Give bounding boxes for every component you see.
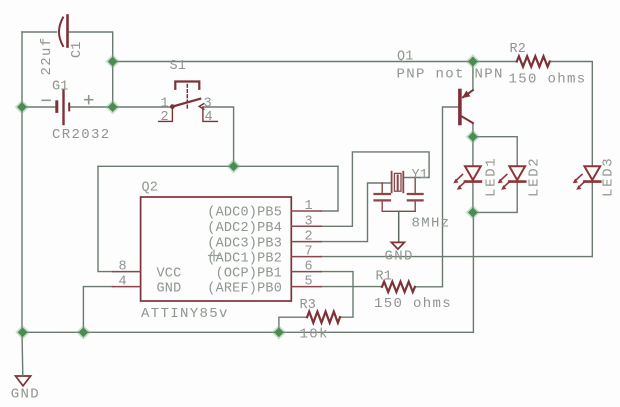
- svg-text:(ADC1)PB2: (ADC1)PB2: [207, 251, 282, 266]
- IC Q2 left pins 8 4: [113, 272, 141, 287]
- svg-text:(ADC0)PB5: (ADC0)PB5: [207, 206, 282, 221]
- junction node halos: [15, 54, 481, 340]
- IC Q2 ATTINY85v box: [141, 197, 292, 301]
- svg-text:22uf: 22uf: [39, 36, 55, 75]
- wire bottom ground rail: [22, 212, 473, 332]
- svg-text:GND: GND: [385, 249, 414, 265]
- svg-text:GND: GND: [11, 387, 40, 403]
- IC Q2 origin cross: [209, 250, 220, 261]
- wire LED3 cathode down to pin 7 net: [591, 182, 593, 257]
- switch S1: [159, 82, 218, 122]
- wire R3 left lead to ground rail: [279, 317, 307, 332]
- svg-text:Q2: Q2: [142, 181, 159, 196]
- battery minus sign: [42, 99, 50, 101]
- svg-text:6: 6: [304, 260, 312, 275]
- svg-text:8MHz: 8MHz: [412, 216, 451, 232]
- svg-text:150 ohms: 150 ohms: [374, 296, 452, 312]
- wire Q1 emitter to top rail: [472, 62, 474, 91]
- svg-text:2: 2: [160, 110, 168, 125]
- svg-text:LED2: LED2: [527, 157, 543, 197]
- wire vertical battery plus riser: [112, 62, 114, 108]
- svg-text:ATTINY85v: ATTINY85v: [141, 306, 229, 322]
- wire stub to bottom ground: [21, 332, 24, 375]
- svg-text:(OCP)PB1: (OCP)PB1: [216, 266, 282, 281]
- svg-text:VCC: VCC: [157, 266, 182, 281]
- ground symbol below Y1: [391, 242, 404, 249]
- resistor R1: [382, 282, 415, 292]
- wire IC pin 3 to crystal right side: [321, 152, 429, 226]
- capacitor C1: [59, 16, 68, 47]
- battery plus sign: [85, 96, 93, 104]
- wire battery row right segment: [70, 106, 113, 108]
- wire riser to IC pin 1: [321, 166, 338, 211]
- svg-text:S1: S1: [170, 59, 187, 74]
- ground symbol bottom left: [16, 376, 31, 386]
- wire switch pin 3 down to mid junction: [204, 107, 234, 166]
- svg-text:G1: G1: [52, 80, 69, 95]
- svg-text:4: 4: [204, 110, 212, 125]
- svg-text:(ADC2)PB4: (ADC2)PB4: [207, 221, 282, 236]
- LED LED3: [573, 166, 601, 190]
- svg-text:CR2032: CR2032: [52, 127, 111, 143]
- resistor R3: [307, 312, 340, 323]
- wire R2 to LED3 anode: [550, 62, 593, 167]
- wire IC pin 5 to R1: [321, 286, 382, 288]
- wire mid horizontal VCC net: [98, 165, 338, 167]
- wire LED1 anode lead: [472, 137, 474, 167]
- svg-text:4: 4: [118, 275, 126, 290]
- svg-text:(ADC3)PB3: (ADC3)PB3: [207, 236, 282, 251]
- svg-text:LED3: LED3: [601, 157, 617, 197]
- wire LED1 cathode to bottom node: [472, 182, 474, 212]
- wire battery row left segment: [22, 106, 55, 108]
- wire top rail from riser to R2: [113, 61, 517, 63]
- wire LED top node across to LED2: [473, 137, 517, 167]
- crystal Y1 resonator: [375, 172, 423, 242]
- IC Q2 right pins 1 3 2 7 6 5: [291, 211, 321, 287]
- svg-text:GND: GND: [157, 281, 182, 296]
- svg-text:8: 8: [118, 260, 126, 275]
- resistor R2: [517, 56, 550, 66]
- svg-text:LED1: LED1: [484, 157, 500, 197]
- LED LED2: [498, 166, 526, 190]
- wire top-left loop from C1 to battery minus down to ground rail: [22, 32, 57, 332]
- svg-text:C1: C1: [70, 41, 85, 58]
- wire C1 right to top rail corner: [68, 32, 113, 62]
- svg-text:R1: R1: [376, 270, 393, 285]
- wire R1 to Q1 base: [415, 107, 458, 287]
- wire IC pin 7 long net to LED3 cathode: [321, 256, 592, 258]
- svg-text:1: 1: [304, 199, 312, 214]
- wire VCC drop to pin 8: [98, 166, 113, 271]
- svg-text:R3: R3: [300, 298, 317, 313]
- svg-text:5: 5: [304, 275, 312, 290]
- wire IC GND pin 4 to ground rail: [83, 287, 113, 333]
- wire Q1 collector down to LED node: [472, 123, 474, 137]
- svg-text:(AREF)PB0: (AREF)PB0: [207, 281, 282, 296]
- battery G1: [57, 91, 69, 125]
- svg-text:R2: R2: [510, 42, 527, 57]
- svg-text:10k: 10k: [300, 327, 329, 343]
- svg-text:PNP not NPN: PNP not NPN: [397, 67, 504, 83]
- wire IC pin 2 to crystal left side: [321, 183, 391, 242]
- svg-text:Q1: Q1: [397, 50, 414, 65]
- svg-text:7: 7: [304, 245, 312, 260]
- wire IC pin 6 down to R3: [321, 272, 353, 318]
- junction node dots: [17, 57, 478, 338]
- svg-text:2: 2: [304, 230, 312, 245]
- svg-text:150 ohms: 150 ohms: [509, 72, 587, 88]
- transistor Q1: [460, 90, 473, 123]
- LED LED1: [453, 166, 481, 190]
- svg-text:3: 3: [304, 214, 312, 229]
- wire battery to switch pin 1: [113, 106, 171, 108]
- wire LED2 cathode to bottom node: [473, 182, 517, 212]
- svg-text:Y1: Y1: [412, 168, 429, 183]
